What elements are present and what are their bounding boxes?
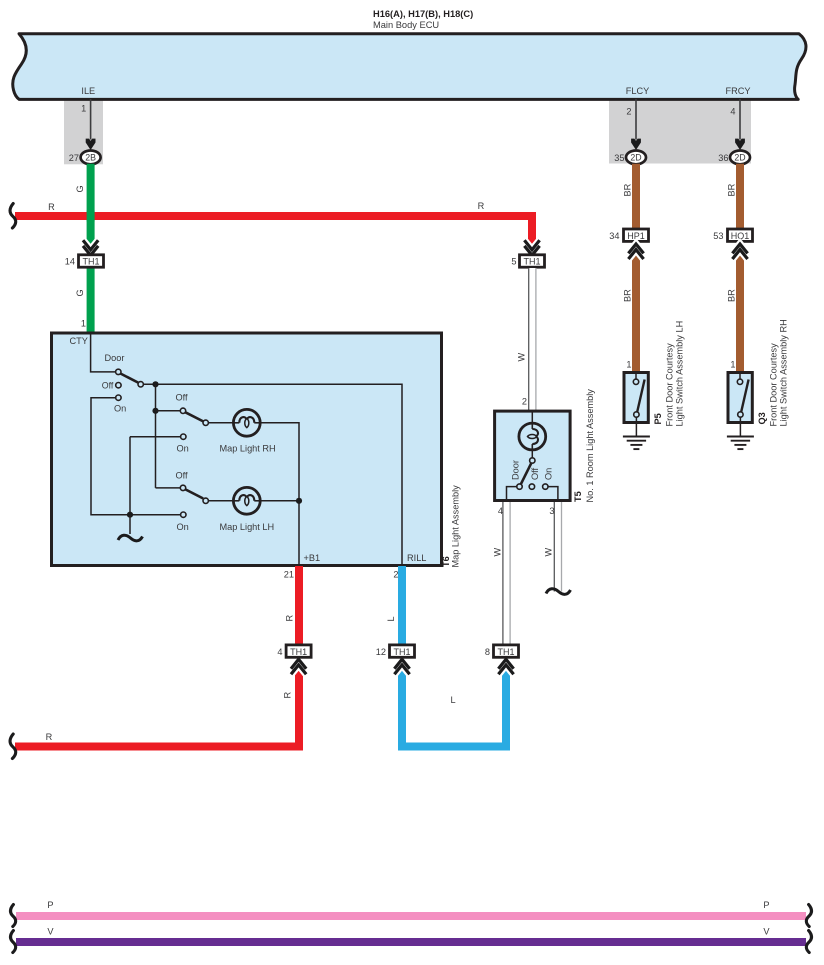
room switch Off contact xyxy=(529,484,534,489)
map light assembly T6 box xyxy=(52,333,442,566)
wire RH lamp to +B1 rail xyxy=(260,423,299,565)
door switch Door contact xyxy=(138,382,143,387)
break squiggle left of V xyxy=(11,931,16,953)
door courtesy switch Q3 box xyxy=(728,373,752,423)
wire R red main horizontal xyxy=(15,216,532,252)
svg-text:BR: BR xyxy=(623,289,633,302)
map light RH switch xyxy=(130,392,208,514)
door switch Off contact xyxy=(116,383,121,388)
room switch arm xyxy=(521,463,531,484)
svg-text:Main Body ECU: Main Body ECU xyxy=(373,20,439,30)
lamp room light xyxy=(519,423,546,450)
pin 2 stub (FLCY) xyxy=(626,99,641,150)
svg-text:8: 8 xyxy=(485,647,490,657)
node junction On common xyxy=(127,512,133,518)
door switch arm xyxy=(120,373,139,383)
wire lamp to room switch xyxy=(531,450,533,458)
svg-text:Door: Door xyxy=(511,460,521,480)
wire from CTY pin 1 to door switch xyxy=(91,334,116,372)
ground below P5 xyxy=(623,424,650,449)
wire V violet bottom bus xyxy=(16,938,806,946)
wire W white from room light pin 3 down to break xyxy=(554,502,561,592)
svg-text:W: W xyxy=(544,548,554,557)
gray connector region right (FLCY/FRCY pins) xyxy=(609,99,751,164)
svg-text:TH1: TH1 xyxy=(497,647,514,657)
svg-text:W: W xyxy=(517,353,527,362)
svg-text:35: 35 xyxy=(614,153,624,163)
svg-text:On: On xyxy=(177,444,189,454)
break squiggle left of red wire xyxy=(10,204,16,229)
connector TH1 pin 4 xyxy=(277,645,311,657)
gray connector region left (ILE pin) xyxy=(64,99,103,164)
room switch pivot xyxy=(530,458,535,463)
wire green over red crossing xyxy=(87,211,95,222)
wire BR brown from 2D 36 to Q3 xyxy=(736,164,744,372)
svg-text:34: 34 xyxy=(609,231,619,241)
svg-text:Map Light LH: Map Light LH xyxy=(220,522,275,532)
svg-text:4: 4 xyxy=(277,647,282,657)
svg-text:1: 1 xyxy=(81,319,86,329)
svg-text:T6: T6 xyxy=(441,556,451,567)
svg-text:TH1: TH1 xyxy=(82,257,99,267)
svg-text:27: 27 xyxy=(69,153,79,163)
wire door output to RILL feed xyxy=(143,384,402,565)
wire LH switch to lamp xyxy=(208,500,233,502)
svg-text:Q3: Q3 xyxy=(757,412,767,424)
svg-text:1: 1 xyxy=(626,360,631,370)
svg-text:Off: Off xyxy=(530,467,540,480)
svg-text:2: 2 xyxy=(626,107,631,117)
svg-text:R: R xyxy=(285,615,295,622)
svg-text:1: 1 xyxy=(730,360,735,370)
svg-text:L: L xyxy=(450,695,455,705)
svg-text:P: P xyxy=(763,900,769,910)
wire BR brown from 2D 35 to P5 xyxy=(632,164,640,372)
svg-text:RILL: RILL xyxy=(407,553,426,563)
connector oval 2B pin 27 xyxy=(69,151,101,165)
svg-text:V: V xyxy=(47,927,54,937)
wire RH switch to lamp xyxy=(208,422,233,424)
chevron pair down into TH1 14 xyxy=(83,240,98,255)
svg-text:L: L xyxy=(386,616,396,621)
wire L blue from RILL down through TH1 12 to TH1 8 xyxy=(402,566,506,747)
svg-text:R: R xyxy=(48,202,55,212)
chevron pair up below HP1 xyxy=(628,244,643,259)
chevron pair down into TH1 5 xyxy=(524,240,539,255)
chevron pair up below HQ1 xyxy=(732,244,747,259)
door switch pivot contact xyxy=(116,369,121,374)
room switch On contact xyxy=(543,484,548,489)
break squiggle right of P xyxy=(806,905,811,927)
svg-text:4: 4 xyxy=(498,506,503,516)
svg-text:T5: T5 xyxy=(573,491,583,502)
svg-text:2B: 2B xyxy=(85,153,96,163)
wire G green from 2B to map light assembly xyxy=(87,164,95,333)
Q3 switch interior xyxy=(737,373,748,425)
lamp Map Light RH xyxy=(233,409,260,436)
svg-text:P: P xyxy=(47,900,53,910)
wire LH lamp to junction xyxy=(260,500,299,502)
svg-text:14: 14 xyxy=(65,257,75,267)
svg-text:Front Door Courtesy: Front Door Courtesy xyxy=(665,343,675,427)
svg-text:4: 4 xyxy=(730,107,735,117)
break tilde below pin 3 wire xyxy=(546,589,571,595)
connector TH1 pin 14 xyxy=(65,255,104,267)
connector TH1 pin 8 xyxy=(485,645,519,657)
svg-text:2D: 2D xyxy=(734,153,745,163)
pin 1 stub (ILE) xyxy=(81,99,95,150)
wire vertical to lamp switches xyxy=(155,384,157,488)
chevron pair up into TH1 8 xyxy=(498,659,513,674)
svg-text:R: R xyxy=(283,692,293,699)
svg-text:Light Switch Assembly LH: Light Switch Assembly LH xyxy=(675,321,685,427)
door courtesy switch P5 box xyxy=(624,373,648,423)
connector oval 2D pin 36 xyxy=(718,151,750,165)
svg-text:Front Door Courtesy: Front Door Courtesy xyxy=(769,343,779,427)
svg-text:On: On xyxy=(544,468,554,480)
map light LH switch xyxy=(156,471,209,532)
break squiggle bottom red xyxy=(10,734,16,759)
connector TH1 pin 5 xyxy=(511,255,544,267)
svg-text:R: R xyxy=(478,201,485,211)
svg-text:Map Light Assembly: Map Light Assembly xyxy=(451,485,461,568)
chevron pair up into TH1 4 xyxy=(291,659,306,674)
wire W white from room light pin 4 down to TH1 8 xyxy=(503,502,510,644)
door switch On contact xyxy=(116,395,121,400)
svg-text:H16(A), H17(B), H18(C): H16(A), H17(B), H18(C) xyxy=(373,9,473,19)
svg-text:36: 36 xyxy=(718,153,728,163)
svg-text:CTY: CTY xyxy=(70,336,88,346)
svg-text:53: 53 xyxy=(713,231,723,241)
svg-text:R: R xyxy=(46,732,53,742)
svg-text:On: On xyxy=(177,522,189,532)
lamp Map Light LH xyxy=(233,487,260,514)
svg-text:G: G xyxy=(75,289,85,296)
svg-text:Off: Off xyxy=(176,392,189,402)
room switch Door contact xyxy=(517,484,522,489)
svg-text:W: W xyxy=(493,548,503,557)
pin 4 stub (FRCY) xyxy=(730,99,745,150)
break squiggle left of P xyxy=(11,905,16,927)
svg-text:1: 1 xyxy=(81,104,86,114)
svg-text:No. 1 Room Light Assembly: No. 1 Room Light Assembly xyxy=(585,389,595,503)
svg-text:BR: BR xyxy=(727,289,737,302)
chevron pair up into TH1 12 xyxy=(394,659,409,674)
svg-text:Light Switch Assembly RH: Light Switch Assembly RH xyxy=(779,319,789,426)
svg-text:Map Light RH: Map Light RH xyxy=(220,444,276,454)
svg-text:V: V xyxy=(763,927,770,937)
connector oval 2D pin 35 xyxy=(614,151,646,165)
svg-text:3: 3 xyxy=(549,506,554,516)
svg-text:TH1: TH1 xyxy=(290,647,307,657)
wire pin 2 to lamp xyxy=(531,412,533,423)
wire P pink bottom bus xyxy=(16,912,806,920)
svg-text:FLCY: FLCY xyxy=(626,86,650,96)
svg-text:ILE: ILE xyxy=(81,86,95,96)
wire Door contact to pin 4 xyxy=(507,487,517,501)
break tilde inside T6 xyxy=(118,535,143,541)
break squiggle right of V xyxy=(806,931,811,953)
svg-text:21: 21 xyxy=(284,570,294,580)
node junction door output xyxy=(152,381,158,387)
room light assembly T5 box xyxy=(495,411,570,500)
ground below Q3 xyxy=(727,424,754,449)
svg-text:12: 12 xyxy=(376,647,386,657)
svg-text:FRCY: FRCY xyxy=(725,86,750,96)
svg-text:2: 2 xyxy=(393,570,398,580)
wire R red from +B1 down through TH1 4 to bottom left xyxy=(15,566,299,747)
svg-text:Door: Door xyxy=(105,353,125,363)
node junction +B1 rail xyxy=(296,498,302,504)
svg-text:BR: BR xyxy=(727,183,737,196)
wire On contact to pin 3 xyxy=(548,487,558,501)
connector TH1 pin 12 xyxy=(376,645,415,657)
Main Body ECU band xyxy=(13,34,806,100)
svg-text:Off: Off xyxy=(102,380,114,390)
svg-text:5: 5 xyxy=(511,257,516,267)
svg-text:TH1: TH1 xyxy=(393,647,410,657)
wire stub below On common xyxy=(129,515,131,534)
svg-text:2: 2 xyxy=(522,397,527,407)
connector HQ1 pin 53 xyxy=(713,229,752,241)
svg-text:TH1: TH1 xyxy=(523,257,540,267)
connector HP1 pin 34 xyxy=(609,229,648,241)
svg-text:P5: P5 xyxy=(653,413,663,424)
svg-text:On: On xyxy=(114,404,126,414)
svg-text:G: G xyxy=(75,185,85,192)
P5 switch interior xyxy=(633,373,644,425)
wire W white from TH1 5 down to room light pin 2 xyxy=(529,268,536,411)
svg-text:+B1: +B1 xyxy=(304,553,321,563)
svg-text:Off: Off xyxy=(176,471,189,481)
node junction RH switch feed xyxy=(152,408,158,414)
wire door On feed down-left xyxy=(91,398,181,515)
svg-text:2D: 2D xyxy=(630,153,641,163)
svg-text:BR: BR xyxy=(623,183,633,196)
